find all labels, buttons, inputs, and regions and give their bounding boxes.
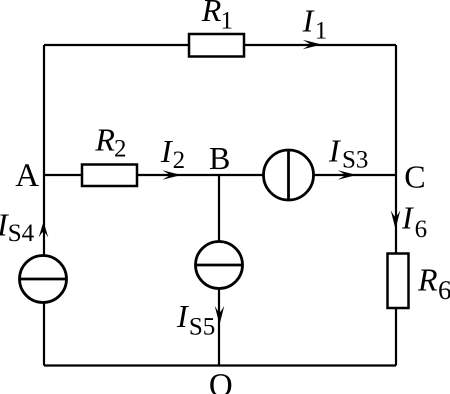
arrow I2 — [162, 170, 181, 180]
wire bottom — [44, 364, 396, 366]
svg-text:I: I — [176, 298, 189, 334]
svg-text:S5: S5 — [189, 314, 215, 341]
svg-text:R: R — [417, 261, 438, 297]
svg-text:I: I — [160, 133, 173, 169]
svg-text:I: I — [302, 2, 315, 38]
arrow IS5 down — [215, 306, 225, 325]
svg-text:S3: S3 — [342, 147, 368, 174]
resistor R2 — [82, 165, 137, 187]
svg-text:6: 6 — [415, 216, 428, 243]
svg-text:A: A — [15, 158, 39, 194]
svg-text:I: I — [401, 200, 414, 236]
svg-text:6: 6 — [438, 275, 450, 305]
svg-text:B: B — [209, 140, 230, 176]
svg-text:S4: S4 — [8, 220, 35, 247]
wire top A-to-C loop — [44, 44, 396, 46]
svg-text:C: C — [404, 158, 425, 194]
svg-text:2: 2 — [173, 147, 186, 174]
arrow I6 down — [391, 210, 401, 229]
svg-text:O: O — [209, 368, 233, 394]
svg-text:I: I — [328, 133, 341, 169]
current source IS4 — [20, 256, 67, 303]
svg-text:R: R — [94, 122, 115, 158]
svg-text:R: R — [201, 0, 222, 28]
svg-text:1: 1 — [221, 8, 234, 35]
current source IS3 — [264, 150, 314, 200]
arrow I1 — [303, 40, 322, 50]
wire left vertical — [43, 45, 45, 366]
arrow IS3 — [338, 170, 357, 180]
current source IS5 — [196, 242, 243, 289]
wire B vertical — [218, 175, 220, 366]
wire middle A-B-C — [44, 174, 396, 176]
arrow IS4 up — [39, 222, 49, 238]
wire right vertical — [395, 45, 397, 366]
resistor R6 — [388, 254, 409, 309]
svg-text:1: 1 — [315, 18, 328, 45]
svg-text:2: 2 — [114, 136, 127, 163]
resistor R1 — [189, 34, 244, 57]
